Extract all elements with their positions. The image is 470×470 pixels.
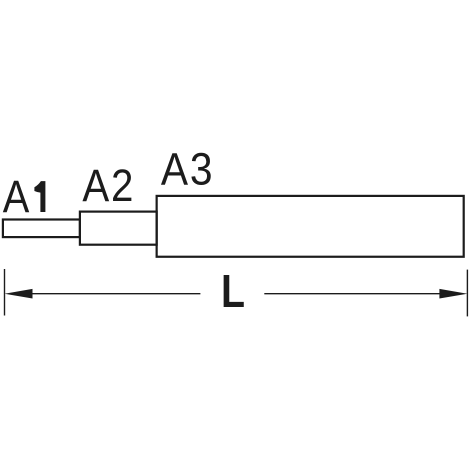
label A1 (3, 171, 46, 222)
label L (dimension) (221, 266, 245, 318)
segment A3 (large shaft section) (157, 196, 464, 257)
svg-text:A: A (3, 171, 30, 222)
segment A1 (thin shaft section) (3, 220, 80, 238)
arrowhead left (5, 289, 33, 299)
label A3 (161, 144, 214, 195)
dimension line left segment (30, 293, 200, 295)
svg-text:A2: A2 (82, 161, 135, 212)
svg-text:A3: A3 (161, 144, 214, 195)
svg-text:L: L (221, 266, 245, 318)
arrowhead right (439, 289, 467, 299)
label A2 (82, 161, 135, 212)
extension line right (466, 270, 468, 317)
extension line left (4, 269, 6, 316)
dimension line right segment (264, 293, 442, 295)
segment A2 (middle shaft section) (80, 212, 157, 245)
